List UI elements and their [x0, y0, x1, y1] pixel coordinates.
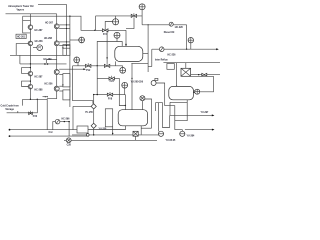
svg-text:FV6: FV6	[33, 116, 38, 118]
instrument TI2	[188, 38, 193, 43]
drum D2	[169, 86, 194, 99]
instrument PIC top	[113, 19, 119, 25]
pump P6	[54, 41, 59, 46]
wire: riser for second header	[19, 56, 21, 64]
dot	[9, 129, 11, 131]
wire: cold crude line	[7, 99, 38, 113]
pump P1	[28, 25, 33, 30]
wire: TI stem	[116, 38, 118, 41]
wire: furnace inlet bottom	[46, 99, 48, 130]
arrow	[216, 48, 219, 50]
wire: drum bottom outlet	[114, 61, 116, 65]
svg-text:HC-261: HC-261	[17, 37, 26, 39]
wire: D3 bottom out	[88, 126, 126, 130]
wire: TC out	[156, 83, 165, 106]
instrument FC1	[79, 37, 85, 43]
wire: cold feed vertical main pump header	[29, 14, 31, 100]
node label: Cold Crude from Storage	[1, 106, 19, 111]
exchanger box with X	[133, 131, 138, 136]
wire: vapor bypass valve line	[96, 15, 132, 17]
wire: drop to storage line	[22, 99, 24, 105]
svg-text:YU-05-05: YU-05-05	[166, 140, 177, 142]
pump P3	[28, 71, 33, 76]
pump circle with X	[66, 138, 71, 143]
wire: rect drop	[112, 127, 114, 135]
svg-text:YU-284: YU-284	[187, 135, 196, 138]
control valve FV1	[102, 29, 108, 32]
wire: crude supply line B	[10, 135, 90, 137]
svg-text:Atmospheric Tower OH: Atmospheric Tower OH	[8, 5, 34, 8]
wire: P5-P6 connect	[56, 29, 58, 41]
wire: inter reflux product line	[152, 48, 218, 50]
wire: D3 feed 1	[124, 95, 126, 110]
svg-text:HC-287: HC-287	[35, 76, 44, 78]
pump P7	[54, 70, 59, 75]
junction	[97, 94, 98, 95]
wire: diamond to bottom line	[93, 128, 95, 135]
svg-text:Diesel Oil: Diesel Oil	[164, 32, 175, 34]
exchanger E1 internal rung	[63, 47, 70, 49]
wire: right vertical 1	[147, 25, 149, 67]
wire: slop line down to diamond	[73, 66, 93, 104]
wire: FV8 line	[94, 94, 108, 96]
junction	[68, 121, 69, 122]
instrument TI3	[120, 67, 126, 73]
wire: P1 recycle loop	[23, 16, 31, 20]
junction	[106, 57, 107, 58]
wire: FV8 out	[113, 94, 126, 96]
svg-text:HC-267: HC-267	[35, 30, 44, 32]
svg-text:FV2: FV2	[86, 70, 91, 72]
svg-text:FV3: FV3	[110, 81, 115, 83]
wire: PIC stem	[115, 16, 117, 19]
arrow	[212, 129, 215, 131]
junction	[30, 99, 31, 100]
wire: elbow	[169, 115, 171, 127]
wire: box2 down to drum2	[176, 63, 178, 86]
wire: PIC2 stem	[141, 10, 143, 16]
wire: to pump YU-284	[175, 130, 183, 132]
valve bowtie right	[202, 73, 207, 76]
svg-text:HC-228: HC-228	[175, 27, 184, 29]
wire: second line into diamond	[73, 105, 91, 107]
wire: bowtie riser	[45, 60, 47, 63]
junction	[64, 121, 65, 122]
wire: crude supply line A	[10, 129, 78, 131]
box right of crude line	[77, 126, 88, 133]
drum D3	[118, 110, 147, 126]
pump circle bottom right 2	[180, 131, 185, 136]
wire: valve line to right	[191, 74, 220, 76]
diamond symbol upper	[91, 104, 96, 109]
wire: TC elbow across	[165, 106, 175, 130]
wire: bottom pump header to furnace	[23, 98, 48, 100]
junction	[66, 41, 67, 42]
wire: P5 feed drop	[56, 14, 58, 24]
wire: FV3 branch	[97, 77, 109, 79]
wire: drum3 side elbow	[141, 127, 151, 129]
svg-text:C28: C28	[67, 144, 72, 146]
wire: bypass elbow	[126, 17, 134, 28]
svg-text:YU-205-256: YU-205-256	[131, 82, 144, 84]
wire: drop to product line	[186, 25, 188, 49]
wire: bottom long line A	[72, 134, 158, 136]
junction	[69, 16, 70, 17]
wire: upper header under title	[6, 13, 57, 15]
wire: drum top inlet line	[97, 42, 122, 66]
wire: bottom long line B	[64, 139, 157, 141]
wire: TI2 stem	[190, 43, 192, 49]
svg-text:HC-226: HC-226	[168, 55, 177, 57]
wire: TI3 stem	[122, 66, 124, 68]
pump P8	[54, 86, 59, 91]
svg-text:YU-297: YU-297	[201, 112, 210, 114]
svg-text:HC-288: HC-288	[35, 89, 44, 91]
wire: rung	[148, 66, 152, 68]
junction	[148, 24, 149, 25]
wire: P3 recycle loop	[22, 68, 31, 74]
svg-text:FV8: FV8	[108, 98, 113, 100]
wire: PIC signal to FV1	[105, 22, 112, 28]
junction	[30, 63, 31, 64]
check valve CV2	[159, 47, 164, 52]
wire: FC3 stem to drum	[124, 88, 126, 95]
wire: reflux control line	[73, 65, 123, 67]
junction	[66, 24, 67, 25]
wire: P7-P8 connect	[56, 75, 58, 87]
wire: P4 recycle loop	[22, 81, 31, 86]
instrument PT	[37, 45, 43, 51]
svg-text:YU-255: YU-255	[85, 112, 94, 114]
dot	[9, 135, 11, 137]
wire: D3 second outlet	[140, 126, 142, 135]
wire: corner across	[156, 103, 170, 128]
svg-text:Inter Reflux: Inter Reflux	[155, 58, 168, 61]
instrument FC3	[122, 82, 128, 88]
wire: agitator stem to drum3	[141, 101, 143, 110]
wire: box2 to motor loop	[191, 76, 214, 91]
instrument TI mid	[114, 32, 120, 38]
coupling small circle	[193, 91, 195, 93]
exchanger box small	[167, 64, 174, 70]
wire: exchanger stub	[135, 136, 137, 140]
wire: upper elbow	[170, 101, 187, 103]
control valve on drum outlet	[104, 64, 109, 67]
junction	[62, 84, 63, 85]
wire: agitator link	[145, 99, 152, 128]
svg-text:HC-256: HC-256	[45, 83, 54, 85]
junction	[93, 134, 94, 135]
exchanger box2 with X	[181, 68, 191, 76]
node label: Atmospheric Tower OH Vapors	[8, 5, 34, 11]
svg-text:HC-296: HC-296	[62, 118, 71, 120]
junction	[37, 99, 38, 100]
small circle on line	[86, 134, 89, 137]
junction	[198, 74, 199, 75]
wire: drum feed drop	[125, 30, 127, 46]
control valve FV2	[86, 64, 91, 67]
wire: P7 stubs	[59, 68, 85, 70]
wire: PT stub	[33, 47, 37, 49]
wire: vertical ext	[147, 67, 149, 73]
wire: P8 stubs	[59, 85, 63, 87]
wire: cross header y55	[10, 54, 67, 56]
junction	[66, 28, 67, 29]
junction with tick	[94, 30, 95, 31]
wire: riser to bypass	[95, 16, 97, 30]
wire: P6 stubs	[59, 41, 70, 43]
svg-text:Storage: Storage	[5, 108, 14, 111]
pump P5 (HC-267 top)	[54, 24, 59, 29]
wire: tick on crude line	[17, 111, 19, 113]
junction	[97, 65, 98, 66]
instrument TC with flag	[151, 81, 156, 86]
exchanger rect E3	[63, 90, 70, 100]
junction	[30, 81, 31, 82]
agitator circle	[140, 96, 145, 101]
wire: P8 down to header	[47, 91, 57, 99]
wire: FV3 out corner	[114, 78, 125, 105]
wire: right vertical 2	[151, 49, 153, 66]
svg-text:HC-268: HC-268	[44, 38, 53, 40]
wire: drum2 bottom out	[175, 100, 187, 121]
svg-text:Cold Crude from: Cold Crude from	[1, 106, 19, 108]
wire: HC-296 out	[60, 122, 69, 137]
control valve FV8	[107, 93, 112, 96]
check valve circle HC-296	[53, 122, 56, 130]
svg-text:HC-266: HC-266	[35, 41, 44, 43]
valve: crude inline control valve	[29, 112, 33, 114]
wire: drop to pump circle 1	[157, 103, 159, 132]
arrow into drum	[125, 44, 127, 46]
motor circle	[195, 89, 200, 94]
junction	[62, 47, 63, 48]
wire: box2 top feed	[185, 63, 187, 69]
valve: black bowtie on second header	[45, 63, 49, 65]
junction	[93, 94, 94, 95]
wire: D3 feed 2 from reflux header	[131, 63, 133, 109]
column/exchanger stack vertical	[69, 16, 71, 107]
wire: drum stub	[143, 53, 148, 55]
control valve FVt	[131, 14, 136, 17]
exchanger rect E2	[63, 74, 70, 87]
svg-text:HC-267: HC-267	[45, 22, 54, 24]
reflux drum D1	[115, 46, 143, 61]
pump P2	[28, 41, 33, 46]
junction	[125, 105, 126, 106]
wire: drop to flare KO	[93, 95, 95, 104]
wire: link to right verticals	[131, 62, 148, 64]
exchanger rect E1	[63, 45, 70, 56]
wire: valve to PIC drop	[137, 16, 143, 25]
wire: lower header to tower feed	[23, 16, 126, 30]
wire: condensate line right	[142, 24, 187, 26]
small column rect	[105, 109, 112, 127]
valve: black mark	[45, 96, 48, 98]
pump P4	[28, 84, 33, 89]
junction	[131, 78, 132, 79]
instrument FC2	[74, 57, 80, 63]
wire: FC1 stub	[70, 39, 79, 41]
wire: overhead vapor line top	[38, 5, 67, 56]
wire: P5 stubs to header	[59, 24, 70, 26]
wire: drop continue	[93, 109, 95, 123]
wire: bottom product arrow	[185, 129, 214, 131]
arrow	[212, 114, 215, 116]
wire: top product arrow	[170, 114, 214, 116]
junction	[186, 49, 187, 50]
wire: long pumparound header right	[163, 62, 220, 64]
junction	[176, 86, 178, 88]
junction	[30, 67, 31, 68]
svg-text:Vapors: Vapors	[16, 9, 24, 11]
svg-text:Crd: Crd	[49, 132, 54, 134]
wire: FV1 tap down to valve hat	[106, 31, 108, 64]
control valve FV3	[109, 77, 114, 80]
junction	[112, 133, 113, 134]
junction	[66, 45, 67, 46]
wire: FC2 stem down	[77, 63, 79, 66]
svg-text:HC-269: HC-269	[44, 59, 53, 61]
pump circle bottom right 1	[158, 131, 163, 136]
wire: P2 recycle loop	[16, 44, 28, 56]
wire: P6 down connect	[56, 46, 58, 70]
wire: center drop 1	[96, 66, 98, 95]
wire: second cross header	[20, 63, 67, 65]
instrument PIC2	[139, 4, 145, 10]
label box HC-261	[16, 34, 26, 38]
check valve CV1	[169, 22, 173, 26]
diamond symbol	[91, 123, 96, 128]
